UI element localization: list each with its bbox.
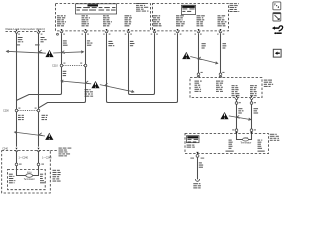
label pin text A3: [103, 15, 112, 26]
inline connector C210 dashes: [63, 65, 84, 67]
pin DLC 6: [37, 30, 40, 34]
callout table SP1: [76, 4, 117, 14]
labels on module D bottom edge: [226, 151, 265, 152]
svg-text:C200: C200: [3, 110, 9, 113]
label wire 237 circuit: [238, 108, 243, 113]
pin module B #3: [197, 29, 200, 33]
pin module D top 2: [250, 132, 252, 134]
wire module A pin4: [129, 34, 131, 95]
warning triangle 1: [45, 50, 53, 57]
label module C text 4: [250, 85, 257, 96]
toolbar button zoom out: [273, 2, 281, 10]
pin module C bottom 2: [250, 96, 253, 100]
wire PCM right upper: [38, 152, 40, 163]
resistor terminator PCM: [26, 174, 33, 178]
callout table D: [187, 136, 200, 143]
arrowhead at wire 107: [105, 83, 109, 86]
arrowhead at wire 61: [62, 51, 65, 54]
pointer triangle4 to wires 198 and 221: [190, 57, 217, 65]
label wire 221 circuit: [223, 43, 227, 48]
pointer triangle1 west off-page: [7, 50, 46, 53]
connector circle PCM 2: [37, 163, 40, 166]
pin module A #2: [84, 29, 87, 33]
label wire 85 top circuit: [87, 40, 93, 45]
label wire 16 lower circuit: [18, 115, 24, 120]
connector circle wire254: [250, 102, 253, 105]
svg-text:Terminator: Terminator: [24, 178, 35, 181]
label PCM text right: [40, 174, 45, 184]
pin module C top 1: [197, 76, 200, 78]
label wire 128 top circuit: [130, 41, 135, 46]
label pin text B2: [176, 15, 185, 26]
svg-text:5116: 5116: [243, 138, 248, 140]
pin labels D bottom: [190, 158, 204, 159]
warning triangle 4: [182, 52, 190, 59]
pin module A #4: [127, 29, 130, 33]
pointer triangle5 to wire254: [229, 116, 251, 121]
svg-text:5116: 5116: [27, 172, 32, 174]
label class 2 serial data: [187, 145, 195, 148]
label wire 107 top circuit: [108, 41, 114, 46]
warning triangle 5: [220, 112, 228, 119]
label module C text 2: [216, 81, 223, 92]
wire module B pin1: [130, 34, 155, 95]
tiny ref labels above arrows: [17, 44, 40, 45]
wire module A pin1: [17, 34, 62, 101]
pin labels wires 237 254: [239, 102, 256, 103]
label pin text B1: [153, 15, 162, 26]
pointer triangle3 to wire16: [15, 131, 46, 136]
label harness note: [59, 148, 72, 157]
label module D text left: [229, 140, 233, 149]
toolbar glyph route arrow: [272, 26, 283, 34]
svg-text:C240: C240: [2, 148, 8, 151]
pin labels PCM: [19, 164, 44, 165]
connector circle wire237: [235, 102, 238, 105]
label PCM text left: [9, 174, 15, 184]
label wire 254 circuit: [254, 108, 259, 113]
wire module A pin2: [39, 34, 86, 108]
arrowhead at wire 39: [39, 50, 43, 53]
pin module B #1: [153, 29, 156, 33]
arrowhead at wire 39 mid lower: [39, 133, 43, 136]
pin module D top 1: [235, 132, 237, 134]
wire terminator left leg: [237, 134, 243, 139]
label wire 198 circuit: [202, 43, 206, 48]
label module A name: [136, 3, 148, 12]
arrowhead at wire 236 mid: [236, 116, 239, 119]
resistor terminator D: [243, 138, 249, 141]
wire DLC pin2 bus -: [16, 34, 18, 147]
pin letters C210: [63, 63, 82, 64]
inline connector C200 terminal a: [15, 109, 18, 112]
label pin text A4: [125, 15, 132, 26]
pin module C top 2: [219, 76, 222, 78]
inline connector C200 terminal b: [37, 109, 40, 112]
label wire 85 circuit: [85, 89, 94, 96]
connector grommet at pin A1: [57, 33, 59, 35]
pin module B #4: [219, 29, 222, 33]
label module B name: [230, 3, 240, 12]
label module C text 3: [232, 85, 240, 96]
connector circle wire198: [197, 73, 200, 76]
arrowhead at wire 198: [198, 57, 202, 60]
pointer triangle2 east to wires 107 and 128: [100, 85, 134, 93]
connector circle wire254 lower: [250, 129, 253, 132]
inline connector C200 dashes: [18, 110, 37, 112]
toolbar button back arrow: [273, 49, 281, 57]
pin number labels top: [18, 34, 224, 35]
warning triangle 3: [45, 133, 53, 140]
pin module C bottom 1: [235, 96, 238, 100]
pin letters C200: [18, 108, 36, 109]
arrowhead at wire 85 mid: [86, 81, 90, 84]
label pin text B4: [218, 15, 227, 26]
wire DLC pin6 bus +: [38, 34, 40, 147]
wire module A pin3: [107, 34, 178, 103]
pin module A #1: [60, 29, 63, 33]
label wire 39 lower circuit: [42, 115, 48, 120]
label splice name: [193, 183, 201, 188]
label wire 61 circuit: [63, 71, 67, 76]
label pin text B3: [197, 15, 205, 26]
label pin text A1: [57, 15, 66, 26]
callout table SP2: [181, 5, 195, 14]
label wire splice circuit: [199, 162, 203, 167]
pin labels wires 198 221: [201, 72, 225, 73]
svg-text:Terminator: Terminator: [240, 142, 251, 145]
pin module B #2: [176, 29, 179, 33]
module box D: [185, 134, 268, 154]
wire module B pin3 down: [198, 34, 200, 76]
pin PCM 2: [37, 148, 40, 152]
label PCM name: [53, 170, 61, 182]
label module C text 1: [195, 81, 202, 92]
wire module D to splice: [197, 157, 199, 179]
svg-text:C210: C210: [52, 65, 58, 68]
wire module C to D right: [251, 100, 253, 133]
label pin text A2: [82, 15, 90, 26]
label wire 61 top circuit: [63, 40, 68, 45]
wire module C to D left: [236, 100, 238, 133]
wire module B pin4 down: [220, 34, 222, 76]
DLC connector face: [6, 30, 47, 32]
module box PCM outer: [2, 151, 51, 193]
inline connector C210 terminal b: [84, 64, 87, 67]
module box PCM inner: [8, 169, 46, 189]
svg-text:Data Link Connector (DLC): Data Link Connector (DLC): [6, 27, 46, 31]
wire PCM left upper: [16, 152, 18, 163]
pin labels lower: [232, 129, 256, 130]
label module D name: [270, 134, 280, 141]
splice cup symbol: [195, 179, 199, 181]
label wire 16 circuit: [18, 37, 23, 42]
pin module A #3: [105, 29, 108, 33]
wire PCM left lower: [17, 166, 26, 176]
connector circle wire221: [219, 73, 222, 76]
connector circle module D bottom: [196, 155, 199, 158]
connector circle wire237 lower: [235, 129, 238, 132]
module box C: [190, 78, 262, 98]
pin arrow module D bottom: [196, 152, 198, 154]
inline connector C210 terminal a: [60, 64, 63, 67]
wire PCM right lower: [33, 166, 39, 176]
label wire 39 circuit: [41, 37, 47, 42]
pin DLC 2: [15, 30, 18, 34]
toolbar button zoom in: [273, 13, 281, 21]
module box A (body control module): [56, 4, 151, 31]
svg-text:1—C240: 1—C240: [19, 157, 29, 160]
pointer triangle1 east to wire85: [53, 51, 83, 53]
warning triangle 2: [91, 81, 99, 88]
label module D text right: [258, 140, 263, 149]
label module C name: [264, 80, 273, 87]
pin PCM 1: [15, 148, 18, 152]
wire terminator right leg: [249, 134, 252, 139]
connector circle PCM 1: [15, 163, 18, 166]
pointer triangle2 west to wire61: [61, 80, 91, 84]
boundary stub: [50, 150, 58, 152]
module box B (instrument cluster): [153, 4, 229, 31]
